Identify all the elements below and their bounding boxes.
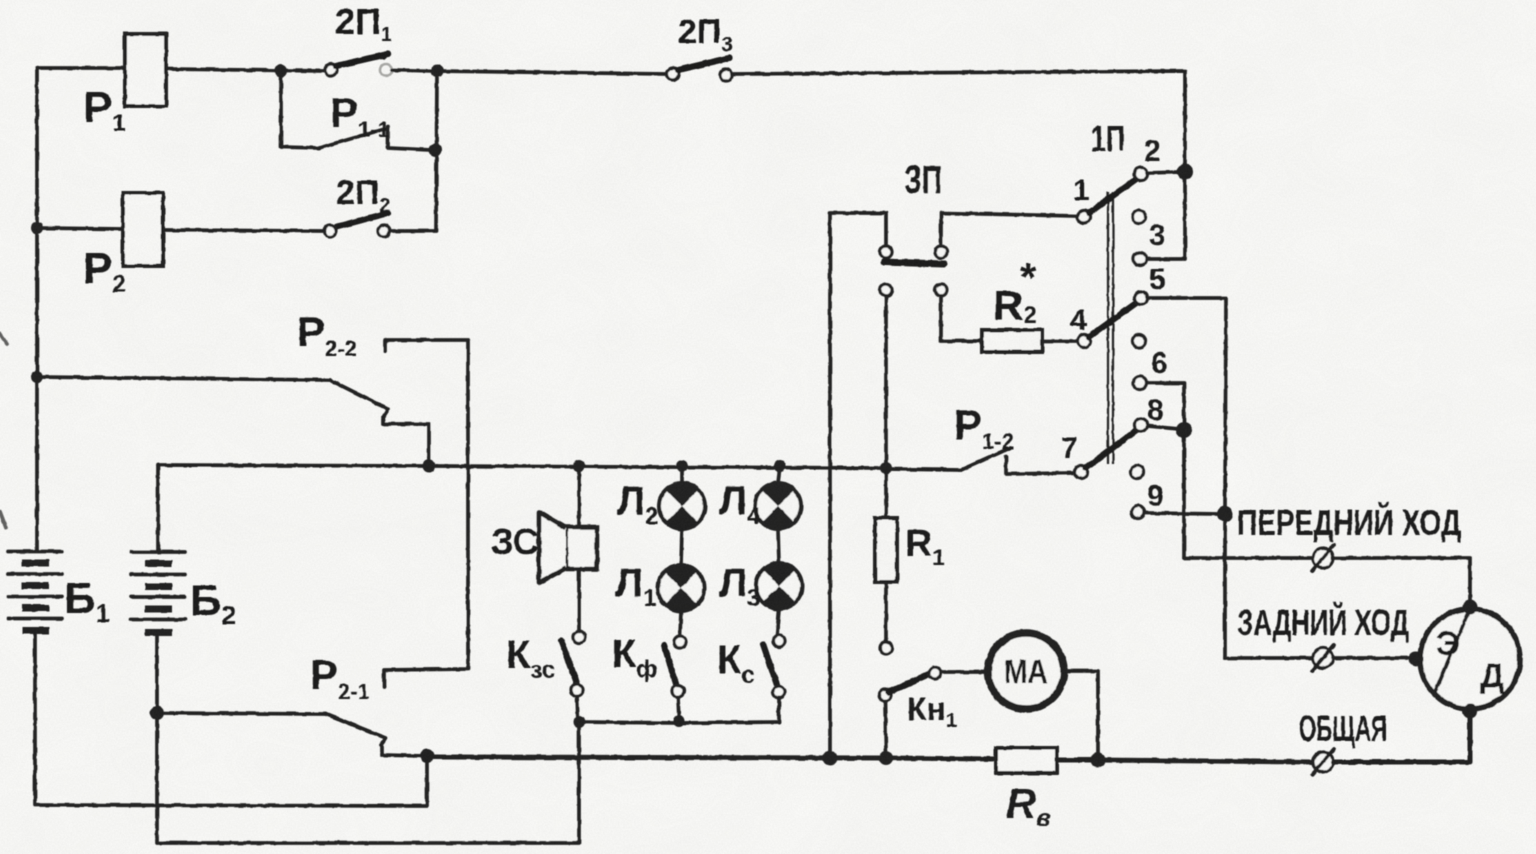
speaker ZS <box>539 512 597 583</box>
wire speaker to Kzs <box>577 569 581 630</box>
ammeter MA <box>988 633 1064 709</box>
contact pole B middle throw <box>1133 335 1146 348</box>
wire contact 2 to lower throw <box>1147 172 1185 259</box>
stray mark left edge <box>0 334 7 344</box>
wire contact 5 to reverse line <box>1148 298 1226 510</box>
switch arm 1-2 <box>1089 177 1139 213</box>
wire P1 coil to switch 2P1 <box>166 69 325 71</box>
wire L4 to L3 <box>778 529 779 563</box>
lamp L3 <box>756 563 802 609</box>
wire contact 8 to node <box>1148 426 1179 429</box>
wire node to switch 2P3 <box>437 71 667 74</box>
node junction Kn1 bottom <box>879 751 893 765</box>
node junction P1-1 <box>429 144 442 157</box>
wire left vertical rail <box>35 68 39 551</box>
battery B2 <box>131 552 185 633</box>
node junction common bus left end <box>420 749 434 763</box>
switch 1P mechanical link <box>1108 192 1113 464</box>
wire forward vertical <box>1182 430 1186 558</box>
node junction speaker branch <box>573 460 585 472</box>
contact 7 <box>1075 466 1088 479</box>
node junction top wire <box>431 65 444 78</box>
wire P2-2 upper throw to P2-1 upper throw <box>384 340 468 687</box>
button Kzs <box>573 631 585 643</box>
lamp L1 <box>658 565 704 611</box>
button Kn1 <box>879 689 891 701</box>
wire top bus to switch 1P <box>732 71 1185 167</box>
wire ZP to 1P contact 1 <box>941 213 1077 246</box>
resistor R1 <box>875 468 897 654</box>
wire bus to speaker <box>577 466 581 527</box>
node junction common rail bottom <box>823 751 838 766</box>
contact 1 <box>1078 211 1091 224</box>
wire B2 negative to buttons <box>157 633 579 843</box>
wire reverse vertical <box>1223 514 1227 658</box>
node junction P2-2 rail <box>31 371 43 383</box>
wire 2P1 to node <box>392 70 437 71</box>
node junction lamp column L2 <box>676 460 688 472</box>
contact pole C lower throw <box>1131 466 1144 479</box>
wire middle bus <box>158 465 886 468</box>
lamp L2 <box>659 466 705 529</box>
wire 2P2 to P2 coil <box>163 230 324 231</box>
motor ED <box>1409 600 1521 719</box>
wire contact 9 to reverse node <box>1145 513 1219 514</box>
node junction contact 2 <box>1177 164 1193 180</box>
wire L3 to Ks <box>777 609 779 636</box>
wire common to motor <box>1333 716 1470 762</box>
wire reverse to motor <box>1333 656 1412 660</box>
node junction P2-2 to bus <box>423 460 436 473</box>
switch 2P1 <box>325 64 337 76</box>
wire ZP to middle node <box>884 296 888 468</box>
wire contact 6 to node <box>1147 383 1184 426</box>
button Kf <box>674 636 686 648</box>
wire ZP to common rail <box>830 213 886 758</box>
terminal forward <box>1312 545 1334 571</box>
wire B1 negative return <box>35 631 427 806</box>
contact P2-1 <box>157 713 326 714</box>
contact 2 <box>1135 168 1148 181</box>
wire Rv to obshchaya terminal <box>1057 760 1313 762</box>
relay coil P2 <box>123 193 163 266</box>
contact pole A lower throw <box>1134 253 1147 266</box>
wire Kn1 to ammeter <box>941 670 986 674</box>
wire ammeter to bus <box>1066 671 1098 757</box>
wire buttons common <box>579 722 779 723</box>
resistor Rv <box>996 748 1057 773</box>
node junction B2 negative <box>150 706 164 720</box>
contact 5 <box>1135 292 1148 305</box>
contact P2-2 <box>37 377 330 380</box>
button Ks <box>773 635 785 647</box>
wire ZP to R2 <box>941 296 982 341</box>
node junction P1/P1-1 <box>275 65 288 78</box>
contact 8 <box>1135 419 1148 432</box>
switch 2P3 <box>667 68 679 80</box>
terminal common <box>1312 749 1334 775</box>
node junction P2 rail <box>31 222 43 234</box>
node junction Kzs bottom <box>573 716 585 728</box>
resistor R2 <box>982 330 1042 352</box>
wire B2 positive to middle bus <box>156 465 160 552</box>
contact P1-1 <box>281 71 319 148</box>
wire L2 to L1 <box>681 529 682 565</box>
relay coil P1 <box>125 34 166 106</box>
wire forward line <box>1184 556 1313 560</box>
node junction Kf bottom <box>673 715 685 727</box>
node junction reverse <box>1217 506 1233 522</box>
wire common bus <box>427 757 996 759</box>
contact 3 <box>1133 211 1146 224</box>
node junction R1 branch <box>880 462 892 474</box>
battery B1 <box>8 552 62 631</box>
terminal reverse <box>1312 645 1334 671</box>
wire vertical 2P branch <box>392 71 437 231</box>
lamp L4 <box>755 466 801 529</box>
wire forward to motor <box>1333 558 1470 608</box>
node junction ammeter bus <box>1091 753 1106 768</box>
stray mark left edge lower <box>0 512 6 528</box>
wire L1 to Kf <box>680 611 681 636</box>
switch arm 4-5 <box>1089 301 1139 337</box>
switch arm 7-8 <box>1086 428 1139 468</box>
node junction forward <box>1176 422 1192 438</box>
button ZP <box>880 246 892 258</box>
contact P1-2 <box>886 469 961 470</box>
wire reverse line <box>1225 656 1313 660</box>
switch 2P2 <box>378 225 390 237</box>
wire contact 2 to top bus <box>1147 172 1180 173</box>
wire R2 to contact 4 <box>1042 339 1077 343</box>
contact 9 <box>1132 506 1145 519</box>
wire battery rail to P1 coil <box>37 66 125 70</box>
contact 4 <box>1078 335 1091 348</box>
wire P2 coil to rail <box>37 228 123 229</box>
node junction lamp column L4 <box>774 460 786 472</box>
contact 6 <box>1134 377 1147 390</box>
